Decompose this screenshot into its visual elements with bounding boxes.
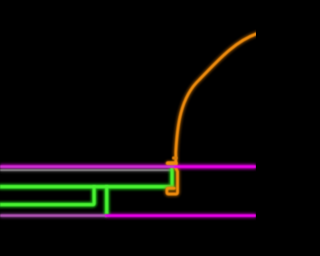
wire: green trace glow <box>0 167 173 214</box>
wire: orange descender and hook <box>167 167 178 194</box>
wire: top magenta bus (bright right segment) <box>175 165 257 168</box>
wire: green horizontal rail AD <box>0 185 173 188</box>
wire: bottom magenta bus glow <box>0 213 256 218</box>
wire: orange arc inner edge widening <box>174 156 176 159</box>
wire: grey net <box>0 169 172 171</box>
wire: green stub V1 + C return <box>0 185 94 204</box>
wire: green drop V2 to bottom bus <box>105 185 108 214</box>
wire: bottom magenta bus (dim left segment) <box>0 214 107 217</box>
wire: orange arc from top-right <box>176 34 257 167</box>
wire: bottom magenta bus (bright right segment) <box>105 214 256 217</box>
wire: orange arc glow <box>167 34 257 194</box>
wire: orange left tick above bus <box>168 161 176 165</box>
wire: green riser V3 to top bus <box>170 167 173 188</box>
wire: grey net glow <box>0 168 172 172</box>
wire: top magenta bus glow <box>0 164 256 170</box>
wire: top magenta bus (dim left segment) <box>0 165 176 168</box>
